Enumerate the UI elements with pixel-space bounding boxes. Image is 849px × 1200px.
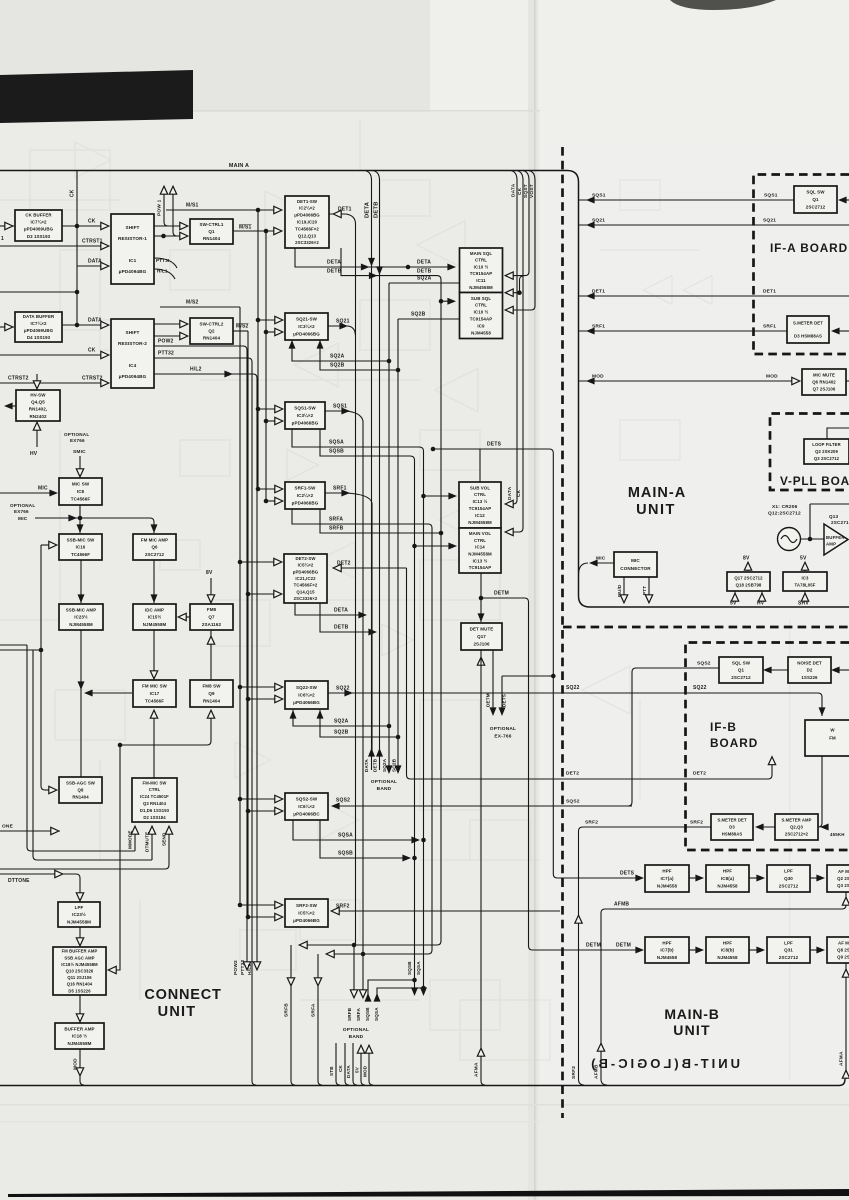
arrow SQSA tail [420,987,427,996]
svg-text:PTT32: PTT32 [158,351,174,357]
arrow FM8 into IDC AMP [178,613,186,620]
svg-text:IC19,IC20: IC19,IC20 [297,220,318,225]
arrow M/S1 into DET1-SW [274,206,282,213]
svg-text:SQ2A: SQ2A [382,758,387,772]
arrow SHV up [801,593,808,601]
arrow SQ2B up SQ22 [317,710,324,719]
wire 5V MOD stubs [361,1050,373,1085]
svg-text:SRFB: SRFB [329,526,344,532]
svg-text:SQ2B: SQ2B [411,312,426,318]
svg-text:VOST: VOST [529,184,535,198]
arrow into SQL SW B [763,667,772,674]
bottom black line [8,1189,849,1197]
svg-text:CK BUFFER: CK BUFFER [25,212,52,217]
arrow DETB join [369,272,378,279]
wire M/S1 control vertical [257,210,259,489]
wire CK input from page edge [0,225,14,227]
oscillator X1 CR206 [778,528,801,551]
wire ctrl to SRF2-SW [240,905,281,917]
analog switch SQS1-SW [285,402,325,429]
svg-text:μPD4066BG: μPD4066BG [292,501,319,506]
arrow DETA into MAIN SQL [447,264,456,271]
arrow MS1bar into DET1-SW [274,227,282,234]
svg-text:SRF2: SRF2 [571,1066,577,1079]
svg-text:μPD4066BG: μPD4066BG [292,421,319,426]
svg-text:Q1: Q1 [812,197,819,202]
svg-text:SQSB: SQSB [365,1007,370,1021]
node DATA junction 325 [75,323,80,328]
svg-text:RN1404: RN1404 [203,699,221,704]
wire ctrl to DET2-SW [240,562,280,594]
svg-text:MOD: MOD [363,1065,368,1077]
arrow DETA join2 [358,612,367,619]
arrow CTRST1 into SHIFT RESISTOR-1 [101,242,109,249]
V-PLL BOARD dashed box [770,414,849,491]
svg-text:DATA: DATA [511,183,517,197]
wire SRF1 hook [325,493,372,503]
svg-text:SHIFT: SHIFT [125,330,139,335]
arrow SRFB onto vertical [299,941,307,948]
svg-text:DETA: DETA [417,260,431,266]
svg-text:DETS: DETS [502,694,507,707]
wire SRF1 to IF-A [579,330,788,332]
shift register IC1 SHIFT RESISTOR-1 [111,214,154,284]
analog switch SQS2-SW [285,793,328,820]
svg-text:IC13 ½: IC13 ½ [473,499,488,504]
arrow DETB stub up [376,748,383,757]
arrow HV up [758,593,765,601]
wire MIC MUTE out [846,380,849,382]
svg-text:2SC2712: 2SC2712 [731,675,751,680]
svg-text:IC8: IC8 [77,489,85,494]
svg-text:SQ22: SQ22 [336,686,350,692]
svg-text:Q14,Q15: Q14,Q15 [296,589,315,594]
svg-text:2SC2712: 2SC2712 [779,884,799,889]
analog switch SQ22-SW [285,681,328,709]
node SQ2B [396,368,401,373]
node SR1 out [161,234,166,239]
wire DTMUTE [33,650,152,860]
high pass filter IC8a HPF [706,865,749,892]
svg-text:Q2: Q2 [208,329,215,334]
svg-text:CK: CK [517,187,523,195]
svg-text:NJM4558M: NJM4558M [468,552,492,557]
arrow into SSB-MIC SW top [77,524,84,533]
svg-text:IC9: IC9 [477,323,485,328]
analog switch IC16 SSB-MIC SW [59,534,102,560]
svg-text:D2 1SS184: D2 1SS184 [143,815,166,820]
wire ctrl to SQ22-SW [240,687,281,699]
svg-text:NJM4558: NJM4558 [471,330,491,335]
svg-text:Q31: Q31 [784,948,793,953]
svg-text:RN1402,: RN1402, [29,407,47,412]
svg-text:IC7(a): IC7(a) [660,876,674,881]
svg-text:TC4566F: TC4566F [145,699,164,704]
svg-text:SQ21-SW: SQ21-SW [296,317,318,322]
svg-text:1: 1 [1,236,4,242]
analog switch SRF2-SW [285,899,328,927]
svg-text:SQSA: SQSA [374,1007,379,1021]
wire M/S2 [160,306,240,308]
svg-text:SHIFT: SHIFT [125,225,139,230]
arrow HV into HV-SW [33,422,40,430]
svg-text:POW2: POW2 [158,339,174,345]
arrow VOST into SUB SQL [505,306,513,313]
dashed boundary MAIN-A / MAIN-B [563,626,849,629]
svg-text:FM BUFFER AMP: FM BUFFER AMP [62,949,98,954]
node SQ2A 726 [387,724,392,729]
svg-text:IC13 ½: IC13 ½ [473,558,488,563]
node FM8SW link [118,743,123,748]
wire SQ21 hook [328,326,355,335]
arrow AFMB up2 [597,1043,604,1051]
svg-text:AF M: AF M [838,940,849,945]
svg-text:NJM4558M: NJM4558M [468,520,492,525]
arrow DETB join2 [368,629,377,636]
wire DETM optional stub [492,650,494,712]
svg-text:D3 HSM88AS: D3 HSM88AS [794,333,822,338]
svg-text:Q9: Q9 [208,691,215,696]
svg-text:μPD4094BG: μPD4094BG [119,374,147,379]
wire SRFA net [292,509,432,954]
svg-text:DTMUTE: DTMUTE [145,832,150,852]
wire SEND [0,826,169,869]
arrow SQSB stub up [365,993,372,1002]
svg-text:IC8(b): IC8(b) [721,948,735,953]
svg-text:X1: CR206: X1: CR206 [772,504,798,510]
svg-text:2SJ106: 2SJ106 [473,642,490,647]
node SRFB join [439,531,444,536]
high pass filter IC8b HPF [706,937,749,963]
svg-text:μPD4066BG: μPD4066BG [293,332,320,337]
svg-text:TA78L05F: TA78L05F [794,583,815,588]
arrow HV-SW out left [4,403,13,410]
svg-text:Q2 2SK209: Q2 2SK209 [815,449,838,454]
svg-text:DETB: DETB [374,201,380,218]
svg-text:Q3 RN1404: Q3 RN1404 [143,801,167,806]
node y650 junction [39,648,44,653]
svg-text:AFMA: AFMA [474,1062,480,1077]
svg-text:DET2: DET2 [337,561,351,567]
svg-text:SRFA: SRFA [329,517,343,523]
arrow DETM into DET MUTE top [478,613,485,622]
svg-text:DATA: DATA [88,259,102,265]
svg-text:RN1404: RN1404 [72,795,89,800]
buffer IC7 CK BUFFER [15,210,62,241]
svg-text:DATA: DATA [88,318,102,324]
wire M/S2 control vertical [239,307,241,905]
svg-text:CK: CK [70,189,76,197]
arrow into SW-CTRL1 a [180,222,188,229]
arrow POW1 up [160,186,167,194]
wire SRFB net [320,509,441,533]
wire VOST branch [507,292,520,294]
svg-text:OPTIONAL: OPTIONAL [10,503,35,508]
arrow fm mic sw out left [84,690,93,697]
svg-text:MIC SW: MIC SW [72,482,90,487]
wire SQS1 to IF-A [579,199,795,201]
svg-text:SRFA: SRFA [311,1003,317,1017]
arrow DET2 up into FM IF [768,757,775,765]
svg-text:MAIN-A: MAIN-A [628,485,686,501]
arrow MIC left [589,560,598,567]
svg-text:RESISTOR-1: RESISTOR-1 [118,236,147,241]
arrow into S.METER AMP right [820,824,829,831]
svg-text:SRF2-SW: SRF2-SW [296,903,318,908]
svg-text:IC2¼×2: IC2¼×2 [299,206,315,211]
arrow into NOISE DET [831,667,840,674]
svg-text:DETA: DETA [334,608,348,614]
arrow into SSB-AGC SW [49,786,57,793]
arrow DATA stub up [368,748,375,757]
svg-text:DETS: DETS [487,442,502,448]
svg-text:Q8: Q8 [78,788,84,793]
wire CK vertical to top border [76,171,78,325]
svg-text:IC3: IC3 [802,576,809,581]
arrow into HV-SW top [33,381,40,389]
wire HV-SW left out [6,405,16,407]
wire HV-SW top stub [36,374,38,389]
wire 8V stub [747,566,749,571]
wire LOOP FILTER top link [827,428,849,439]
svg-text:TC9154AP: TC9154AP [469,565,492,570]
arrow MOD into MIC MUTE [792,377,800,384]
arrow MU/D down [620,595,627,603]
node SQ2B 737 [396,735,401,740]
wire SQ2B bus vertical [397,319,399,772]
wire DET1 hook vertical bus [346,214,356,945]
wire DATA bus [507,171,517,505]
amplifier Q6 FM MIC AMP [133,534,176,560]
wire SQ2A bus vertical [388,283,390,772]
svg-text:HPF: HPF [723,869,732,874]
svg-text:CK: CK [338,1064,343,1072]
svg-text:IDC AMP: IDC AMP [145,607,164,612]
amplifier FM BUFFER AMP [53,947,106,995]
svg-text:DET1: DET1 [763,289,776,295]
arrow into FM BUFFER AMP [76,938,83,946]
svg-text:M/S1: M/S1 [186,203,198,209]
svg-text:MU/D: MU/D [617,584,622,597]
wire DET MUTE bottom [481,650,485,1085]
svg-text:SQS2: SQS2 [566,799,580,805]
op-amp U19 MAIN SQL CTRL [460,248,503,293]
svg-text:IC18½ NJM4558M: IC18½ NJM4558M [61,962,98,967]
svg-text:HSM88AS: HSM88AS [722,832,743,837]
svg-text:S.METER AMP: S.METER AMP [781,818,811,823]
svg-text:MIC MUTE: MIC MUTE [813,373,835,378]
arrow DETB into SUB SQL [447,298,456,305]
svg-text:2SC3326×2: 2SC3326×2 [294,596,318,601]
svg-text:HPF: HPF [723,940,732,945]
svg-text:H/L2: H/L2 [247,964,253,975]
svg-text:OPTIONAL: OPTIONAL [64,432,89,437]
svg-text:DET1: DET1 [338,207,352,213]
svg-text:Q1: Q1 [208,229,215,234]
svg-text:SQ2A: SQ2A [330,354,345,360]
wire MAIN A top border with rounded corner into right bus [0,171,849,608]
wire FM-MIC SW CTRL to FM MIC SW [153,710,155,778]
scan streak lines [0,1104,849,1106]
svg-text:AMP: AMP [826,542,836,547]
svg-text:HV-SW: HV-SW [30,392,46,397]
node DETB branch [439,299,444,304]
svg-text:SQSB: SQSB [338,851,353,857]
svg-text:CTRST1: CTRST1 [82,239,103,245]
wire SQ22 out [328,693,822,716]
arrow into SW-CTRL2 a [180,320,188,327]
svg-text:μPD4066BC: μPD4066BC [293,812,320,817]
svg-text:Q11 2SJ106: Q11 2SJ106 [67,975,92,980]
svg-text:IC24 TC4501F: IC24 TC4501F [140,794,169,799]
wire SSB-MIC SW to SSB-MIC AMP [80,560,82,603]
analog switch IC17 FM MIC SW [133,680,176,707]
svg-text:FM8: FM8 [207,607,217,612]
svg-text:DATA: DATA [364,759,369,772]
wire SR2 to SW-CTRL2 a [154,323,186,325]
arrow CK into SHIFT RESISTOR-1 [101,222,109,229]
arrow into SUB VOL left [448,493,457,500]
low pass filter IC23 LPF [58,902,100,927]
svg-text:NJM4558: NJM4558 [717,955,738,960]
wire DETM branch right [481,598,641,950]
svg-text:DTTONE: DTTONE [8,878,30,884]
svg-text:DETM: DETM [616,943,631,949]
svg-text:IC23½: IC23½ [72,911,86,917]
svg-text:D3: D3 [729,825,735,830]
svg-text:DET1: DET1 [592,289,605,295]
wire ctrl to SQS2-SW [240,799,281,811]
arrow SQSB tail [411,987,418,996]
wire SQS2 from SQL SW B [628,668,719,806]
svg-text:M/S2: M/S2 [186,300,198,306]
wire SR2 to SW-CTRL2 b [154,335,186,337]
svg-text:H/L2: H/L2 [190,367,202,373]
arrow 8V into FM8 [207,595,214,603]
wire AFMB net [601,892,846,1085]
wire into SSB-AGC SW [45,789,55,791]
mute Q6 Q7 MIC MUTE [802,369,846,395]
svg-text:SQL SW: SQL SW [732,660,751,665]
arrow H/L2 end [253,962,260,970]
svg-text:DET2: DET2 [693,771,706,777]
svg-text:μPD4094BG: μPD4094BG [119,269,147,274]
svg-text:Q17 2SC2712: Q17 2SC2712 [734,576,763,581]
wire VOST bus [507,171,535,311]
svg-text:M/S1: M/S1 [239,225,251,231]
wire SRFB lower vertical [291,945,295,1085]
arrow SRFB down [287,978,294,986]
wire DET1 to IF-A [579,295,849,297]
wire SQSA into SUB VOL [424,495,456,497]
svg-text:MIC: MIC [631,558,640,563]
amplifier IC23 SSB-MIC AMP [59,604,103,630]
arrow into SSB-MIC AMP [78,594,85,603]
arrow into SSB-MIC SW left [49,541,57,548]
svg-text:Q16 RN1404: Q16 RN1404 [67,982,93,987]
svg-text:SQ22: SQ22 [693,685,707,691]
svg-text:IC7(b): IC7(b) [660,948,674,953]
svg-text:SQ2B: SQ2B [392,758,397,772]
svg-text:2SC2712: 2SC2712 [806,205,826,210]
arrow SQS2 into box [331,803,340,810]
svg-text:MIC: MIC [38,486,48,492]
arrow DTTONE [55,870,63,877]
arrow 5V up [357,1045,364,1053]
svg-text:SQ21: SQ21 [763,218,776,224]
svg-text:Q7: Q7 [208,615,215,620]
svg-text:μPD4066BG: μPD4066BG [293,700,320,705]
node SQSA 840 [421,838,426,843]
svg-text:SQS2-SW: SQS2-SW [296,797,318,802]
svg-text:2SC2712: 2SC2712 [145,552,164,557]
svg-text:Q12,Q13: Q12,Q13 [298,233,317,238]
wire DATA buffer out [62,324,107,326]
svg-text:DET2-SW: DET2-SW [295,556,316,561]
svg-text:IC21,IC22: IC21,IC22 [295,576,316,581]
svg-text:DETB: DETB [417,269,432,275]
analog switch IC8 MIC SW [59,478,102,505]
svg-text:SQL SW: SQL SW [806,190,825,195]
arrow into SW-CTRL1 b [180,232,188,239]
svg-text:Q6: Q6 [151,545,158,550]
wire edge feeds y645 [0,644,27,646]
node M/S1 branch [256,208,261,213]
arrow SMIC into MIC SW [76,469,83,477]
svg-text:TC9154AP: TC9154AP [470,317,493,322]
arrow SQSB join [402,855,411,862]
wire PTT32 [154,358,256,1085]
buffer IC7 DATA BUFFER [15,312,62,342]
arrow optional MIC [68,515,77,522]
switch Q8 SSB-AGC SW [59,777,102,803]
switch Q9 FM8 SW [190,680,233,707]
arrow DETS stub down [499,707,506,716]
svg-text:TC9154AP: TC9154AP [469,506,492,511]
wire M/S2 inverted control vertical [247,331,249,917]
svg-text:BAND: BAND [377,786,392,792]
arrow 8V up [744,562,751,570]
low pass filter Q31 LPF [767,937,810,963]
svg-text:AFMB: AFMB [594,1064,600,1079]
node DETA [406,265,411,270]
squelch switch Q1 SQL SW (IF-A) [794,186,837,213]
arrow MOD down [76,1068,83,1076]
svg-text:8V: 8V [206,570,213,576]
svg-text:2SC2712×2: 2SC2712×2 [785,832,809,837]
arrow into FM BUFFER AMP right [108,966,116,973]
arrow SQ22 out [344,690,353,697]
svg-text:SQSB: SQSB [407,961,412,975]
wire CTRST2 [0,382,107,384]
svg-text:2SA1162: 2SA1162 [202,622,222,627]
svg-text:RN1404: RN1404 [203,336,221,341]
svg-text:5V: 5V [355,1066,360,1073]
svg-text:SSB-MIC AMP: SSB-MIC AMP [66,607,96,612]
svg-text:UNIT: UNIT [158,1004,197,1020]
wire FM8 to IDC AMP [180,616,190,618]
wire 5V stub b [804,566,806,571]
svg-text:DETB: DETB [334,625,349,631]
wire DETA bus vertical [365,171,372,757]
wire DETB from DET2-SW [320,603,374,632]
wire 8V into FM8 [210,578,212,603]
svg-text:V-PLL BOARD: V-PLL BOARD [780,474,849,488]
wire left feed vertical [41,545,45,790]
arrow DETA bus down [368,258,375,267]
svg-text:IC6¼×2: IC6¼×2 [298,692,315,698]
volume control MAIN VOL CTRL [459,528,501,573]
